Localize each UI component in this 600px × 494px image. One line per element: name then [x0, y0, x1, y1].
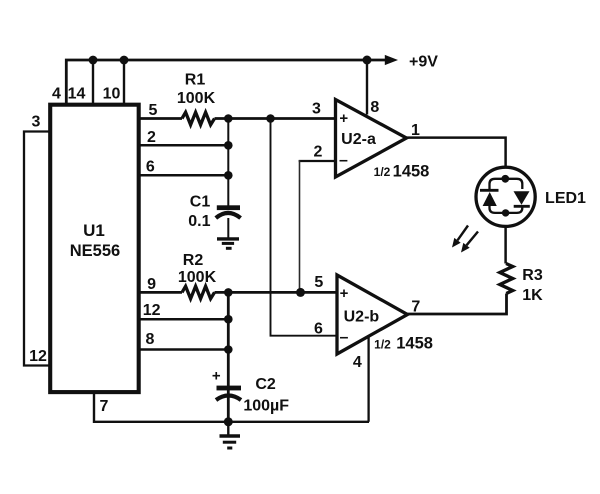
- wire: U1 pin 10 to rail: [123, 60, 125, 105]
- svg-text:NE556: NE556: [70, 242, 120, 260]
- wire: U1 pin 9 to R2: [139, 291, 182, 294]
- svg-text:C1: C1: [190, 193, 211, 210]
- svg-text:6: 6: [146, 159, 155, 176]
- junction: pin2/C1 branch: [224, 141, 233, 150]
- wire: node A to U2-b pin 6 (vertical): [271, 119, 338, 336]
- junction: pin6/C1 branch: [224, 171, 233, 180]
- svg-text:5: 5: [314, 274, 323, 291]
- arrow: +9V supply: [385, 55, 398, 65]
- wire: +9V top supply rail: [66, 60, 386, 105]
- svg-text:3: 3: [32, 114, 41, 131]
- svg-text:12: 12: [29, 348, 47, 365]
- svg-text:R3: R3: [522, 267, 543, 284]
- svg-text:0.1: 0.1: [188, 213, 210, 230]
- svg-text:100µF: 100µF: [243, 398, 289, 415]
- wire: R1 to U2-a pin 3: [215, 117, 337, 120]
- svg-text:100K: 100K: [177, 90, 216, 107]
- svg-text:4: 4: [353, 354, 362, 371]
- wire: U1 pin 5 to R1: [139, 117, 182, 120]
- svg-text:LED1: LED1: [545, 190, 586, 207]
- svg-text:+: +: [339, 110, 348, 127]
- svg-text:1/2: 1/2: [374, 338, 391, 352]
- wire: LED1 to R3: [504, 227, 507, 264]
- wire: R2 to U2-b pin 5: [215, 291, 338, 294]
- svg-text:+9V: +9V: [409, 54, 438, 71]
- junction: node B / pin2 branch: [296, 288, 305, 297]
- svg-text:R2: R2: [183, 252, 204, 269]
- svg-text:7: 7: [100, 398, 109, 415]
- wire: U2-b pin 4 to ground rail: [367, 337, 369, 422]
- svg-text:1458: 1458: [396, 335, 433, 353]
- svg-text:1458: 1458: [393, 163, 430, 181]
- wire: U1 pin 3 to pin 12 (left loop): [24, 132, 50, 366]
- junction: pin10/rail: [120, 56, 129, 65]
- svg-text:10: 10: [103, 86, 121, 103]
- svg-text:14: 14: [68, 86, 86, 103]
- svg-text:U2-a: U2-a: [341, 131, 376, 148]
- svg-text:1K: 1K: [522, 287, 543, 304]
- junction: C2/ground rail: [224, 417, 233, 426]
- junction: pin12/C2 branch: [224, 315, 233, 324]
- junction: R2/C2 branch: [224, 288, 233, 297]
- svg-text:R1: R1: [185, 72, 206, 89]
- wire: U1 pin 2: [139, 144, 229, 147]
- svg-text:2: 2: [147, 129, 156, 146]
- arrow: LED light emission 1: [452, 226, 468, 248]
- wire: C1 to ground: [227, 218, 229, 238]
- svg-text:8: 8: [146, 331, 155, 348]
- resistor R3: [500, 264, 513, 294]
- junction: pin8/C2 branch: [224, 345, 233, 354]
- LED1 (bi-colour LED): [476, 167, 535, 226]
- resistor R1: [182, 112, 215, 125]
- svg-text:–: –: [340, 329, 349, 346]
- resistor R2: [182, 286, 215, 299]
- svg-text:6: 6: [314, 321, 323, 338]
- wire: U2-a pin 2 horizontal: [299, 160, 336, 162]
- svg-text:3: 3: [312, 101, 321, 118]
- arrow: LED light emission 2: [461, 232, 478, 253]
- svg-text:2: 2: [314, 144, 323, 161]
- svg-text:4: 4: [52, 86, 61, 103]
- svg-text:1/2: 1/2: [374, 165, 391, 179]
- junction: pin14/rail: [89, 56, 98, 65]
- wire: node A vertical to C1: [227, 119, 229, 206]
- junction: node A / pin6 branch: [266, 114, 275, 123]
- wire: U1 pin 6: [139, 174, 229, 177]
- svg-text:U2-b: U2-b: [344, 308, 380, 325]
- svg-text:–: –: [339, 152, 348, 169]
- svg-text:+: +: [212, 368, 221, 385]
- op-amp U2-b: [337, 275, 408, 354]
- svg-text:U1: U1: [83, 221, 105, 240]
- svg-text:9: 9: [147, 276, 156, 293]
- capacitor C2 (electrolytic): [212, 368, 241, 401]
- svg-text:100K: 100K: [178, 269, 217, 286]
- junction: R1/C1 branch: [224, 114, 233, 123]
- wire: U1 pin 12: [139, 318, 229, 321]
- wire: U1 pin 14 to rail: [92, 60, 94, 105]
- wire: U1 pin 7 to ground rail: [94, 392, 369, 422]
- ground (C2): [220, 422, 241, 448]
- wire: pin 2 branch down to node B: [299, 160, 301, 292]
- wire: U2-a pin 8 to rail: [366, 60, 368, 115]
- wire: U2-b output to R3: [408, 294, 507, 315]
- svg-text:8: 8: [370, 99, 379, 116]
- svg-text:12: 12: [143, 302, 161, 319]
- wire: node B vertical to C2: [227, 292, 230, 421]
- junction: rail/U2-a pin8: [363, 56, 372, 65]
- svg-text:C2: C2: [255, 376, 276, 393]
- IC U1 NE556: [50, 105, 139, 392]
- svg-text:5: 5: [149, 102, 158, 119]
- op-amp U2-a: [336, 100, 407, 178]
- svg-text:+: +: [340, 285, 349, 302]
- wire: U2-a output to LED1: [407, 138, 506, 167]
- ground (C1): [217, 239, 239, 248]
- capacitor C1: [216, 205, 241, 218]
- wire: U1 pin 8: [139, 348, 229, 351]
